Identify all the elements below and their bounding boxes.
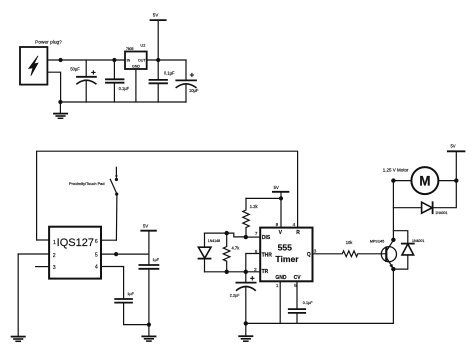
- svg-text:5: 5: [294, 283, 297, 288]
- svg-text:R: R: [296, 230, 300, 236]
- svg-text:U2: U2: [140, 43, 145, 48]
- svg-text:2.2µF: 2.2µF: [230, 294, 240, 298]
- svg-text:IN: IN: [127, 59, 131, 63]
- svg-text:MPSU45: MPSU45: [370, 240, 384, 244]
- svg-text:555: 555: [278, 242, 293, 252]
- svg-text:1.2k: 1.2k: [250, 204, 259, 209]
- svg-text:5V: 5V: [274, 185, 279, 190]
- svg-text:5V: 5V: [450, 143, 455, 148]
- svg-text:1: 1: [276, 283, 279, 288]
- svg-text:Power plug?: Power plug?: [35, 40, 62, 46]
- svg-text:0.1µF: 0.1µF: [164, 70, 175, 75]
- svg-text:CV: CV: [294, 275, 302, 281]
- svg-text:3: 3: [314, 248, 317, 253]
- svg-text:V: V: [279, 230, 283, 236]
- svg-text:GND: GND: [132, 65, 140, 69]
- svg-text:1N4148: 1N4148: [208, 239, 220, 243]
- svg-text:5V: 5V: [153, 13, 158, 18]
- svg-text:1N4001: 1N4001: [412, 239, 424, 243]
- svg-text:8: 8: [276, 222, 279, 227]
- svg-text:5: 5: [95, 252, 98, 258]
- svg-text:DIS: DIS: [262, 235, 271, 241]
- svg-text:GND: GND: [275, 275, 287, 281]
- svg-text:4: 4: [95, 265, 98, 271]
- svg-text:6: 6: [95, 239, 98, 245]
- svg-text:0.1µF: 0.1µF: [119, 86, 130, 91]
- svg-text:3: 3: [53, 265, 56, 271]
- svg-text:4.7k: 4.7k: [232, 246, 241, 251]
- svg-text:Timer: Timer: [275, 254, 299, 264]
- svg-text:1.25 V Motor: 1.25 V Motor: [383, 168, 409, 173]
- svg-text:1µF: 1µF: [127, 292, 134, 296]
- svg-text:7: 7: [255, 231, 258, 236]
- svg-text:10k: 10k: [346, 240, 354, 245]
- svg-text:OUT: OUT: [138, 59, 146, 63]
- svg-text:1: 1: [53, 240, 56, 246]
- svg-text:0.1µF: 0.1µF: [303, 301, 313, 305]
- svg-text:M: M: [419, 174, 430, 189]
- svg-text:TR: TR: [262, 269, 269, 275]
- svg-text:2: 2: [254, 267, 257, 272]
- svg-text:5V: 5V: [143, 224, 148, 229]
- svg-text:Proximity/Touch Pad: Proximity/Touch Pad: [69, 181, 104, 186]
- svg-text:Q: Q: [307, 252, 311, 258]
- svg-text:10µF: 10µF: [189, 88, 199, 93]
- svg-text:IQS127: IQS127: [57, 237, 94, 249]
- svg-text:50µF: 50µF: [70, 67, 80, 72]
- svg-text:THR: THR: [262, 253, 273, 259]
- svg-text:1µF: 1µF: [153, 258, 160, 262]
- svg-text:4: 4: [293, 222, 296, 227]
- svg-text:2: 2: [53, 253, 56, 259]
- svg-text:7805: 7805: [126, 47, 134, 51]
- svg-text:6: 6: [255, 249, 258, 254]
- svg-text:1N4001: 1N4001: [435, 211, 447, 215]
